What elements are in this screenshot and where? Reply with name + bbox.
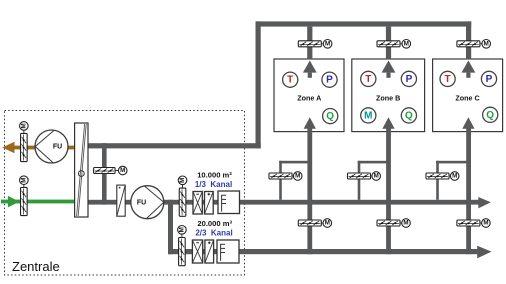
svg-text:Zentrale: Zentrale [12, 259, 60, 274]
motor M of zone C exhaust damper [480, 40, 491, 49]
svg-text:1/3 Kanal: 1/3 Kanal [195, 180, 232, 189]
svg-text:FU: FU [53, 144, 62, 151]
zone B pressure sensor P [401, 71, 416, 86]
svg-text:2/3 Kanal: 2/3 Kanal [195, 229, 232, 238]
zone A pressure sensor P [322, 72, 337, 87]
label Zone C [455, 93, 479, 102]
zone A room box [274, 59, 344, 132]
zone C temperature sensor T [440, 71, 455, 86]
wire zone C exhaust stub [466, 21, 471, 59]
damper B1 on duct 1 (vertical) [179, 188, 186, 216]
svg-text:Zone A: Zone A [297, 93, 321, 102]
svg-text:M: M [178, 227, 185, 232]
svg-text:Q: Q [405, 110, 413, 121]
register E2 [217, 240, 239, 263]
zone B supply arrow [382, 117, 394, 129]
motor M of zone A exhaust damper [321, 40, 332, 49]
label 1/3 Kanal [195, 180, 232, 189]
motor M of zone B exhaust damper [400, 40, 411, 49]
svg-text:M: M [179, 178, 186, 183]
wire supply duct after heat exchanger [88, 200, 240, 205]
heat exchanger (rotary) [75, 123, 88, 217]
zone B temperature sensor T [361, 71, 376, 86]
label 10.000 m3 [197, 171, 232, 180]
wire zone C supply vertical [466, 124, 471, 254]
wire zone B supply vertical [386, 124, 391, 254]
exhaust air duct brown [12, 146, 75, 150]
fresh air duct green [1, 200, 75, 204]
damper D1 exhaust (vertical) [21, 133, 28, 161]
svg-text:P: P [486, 74, 493, 85]
heater H2 [205, 240, 214, 263]
motor M of zone B 2/3 branch damper [400, 219, 410, 228]
svg-text:P: P [406, 74, 413, 85]
zone A supply arrow [304, 117, 316, 129]
zone B air quality sensor Q [401, 108, 416, 123]
zone A temperature sensor T [283, 72, 298, 87]
svg-text:Q: Q [486, 110, 494, 121]
zone C pressure sensor P [481, 71, 496, 86]
cooler X1 [193, 192, 202, 215]
label Zone B [376, 93, 400, 102]
zone C supply arrow [462, 117, 474, 129]
motor M of zone C 2/3 branch damper [480, 219, 490, 228]
zone A air quality sensor Q [323, 109, 338, 124]
cooler X2 [192, 240, 202, 263]
label Zentrale [12, 259, 60, 274]
Zentrale dashed enclosure [5, 111, 245, 276]
svg-text:20.000 m³: 20.000 m³ [197, 219, 232, 228]
wire duct 2 (20.000 m3) with arrow [168, 246, 492, 259]
svg-text:M: M [364, 110, 372, 121]
zone C exhaust damper [457, 41, 480, 47]
svg-text:M: M [295, 173, 300, 180]
zone C room box [433, 59, 503, 132]
fan FU2 supply fan [131, 186, 164, 219]
svg-text:M: M [483, 220, 488, 227]
register E1 [218, 191, 240, 214]
wire zone A supply vertical [307, 124, 312, 254]
zone A damper on 1/3 branch [269, 173, 292, 179]
motor M of damper D2 [20, 176, 29, 188]
fresh air arrow green [8, 196, 20, 208]
svg-text:M: M [20, 123, 27, 128]
zone B damper on 1/3 branch [348, 173, 371, 179]
wire branch drop to 20.000 duct [168, 200, 173, 254]
wire duct 1 (10.000 m3) with arrow [239, 197, 491, 208]
exhaust air arrow brown [2, 142, 14, 153]
filter FL1 [117, 185, 125, 216]
svg-text:M: M [20, 178, 27, 183]
svg-text:M: M [325, 220, 330, 227]
svg-text:M: M [325, 41, 330, 48]
svg-text:M: M [403, 220, 408, 227]
svg-text:T: T [445, 74, 451, 85]
svg-text:T: T [287, 75, 293, 86]
wire return duct top horizontal [256, 21, 472, 26]
heater H1 [205, 192, 214, 215]
wire zone C branch connector [436, 161, 469, 164]
wire return riser vertical [256, 21, 261, 148]
wire zone B exhaust stub [386, 27, 391, 60]
motor M of damper D1 [20, 122, 29, 134]
wire zone A branch from duct1 [279, 161, 282, 200]
svg-text:Zone C: Zone C [455, 93, 479, 102]
svg-text:Zone B: Zone B [376, 93, 400, 102]
label 20.000 m3 [197, 219, 232, 228]
svg-text:P: P [326, 75, 333, 86]
wire zone C branch from duct1 [436, 161, 439, 200]
svg-text:M: M [484, 41, 489, 48]
motor M of zone C 1/3 branch damper [449, 172, 459, 181]
wire zone B branch connector [358, 161, 389, 164]
svg-text:10.000 m³: 10.000 m³ [197, 171, 232, 180]
wire recirculation drop [102, 143, 107, 204]
damper B2 on duct 2 (vertical) [179, 238, 186, 266]
svg-text:M: M [374, 173, 379, 180]
zone B exhaust damper [377, 41, 400, 47]
fan FU1 exhaust fan [35, 130, 68, 163]
label Zone A [297, 93, 321, 102]
zone C exhaust arrow [462, 61, 476, 78]
zone B motion sensor M [361, 108, 376, 123]
svg-text:Q: Q [326, 111, 334, 122]
svg-text:FU: FU [137, 200, 146, 207]
zone B room box [352, 59, 425, 132]
svg-text:M: M [404, 41, 409, 48]
zone A exhaust damper [298, 41, 321, 47]
svg-text:M: M [120, 167, 125, 174]
zone A damper on 2/3 branch [298, 220, 321, 226]
motor M of damper B2 [178, 226, 187, 238]
wire zone B branch from duct1 [358, 161, 361, 200]
motor M of zone A 1/3 branch damper [292, 172, 302, 181]
wire zone A exhaust stub [307, 27, 312, 60]
damper D2 intake (vertical) [21, 187, 28, 215]
damper D3 recirculation (horizontal) [94, 168, 116, 174]
motor M of zone B 1/3 branch damper [371, 172, 381, 181]
motor M of zone A 2/3 branch damper [321, 219, 331, 228]
label 2/3 Kanal [195, 229, 232, 238]
zone C damper on 1/3 branch [426, 173, 449, 179]
wire return duct into Zentrale [88, 143, 261, 148]
svg-text:M: M [452, 173, 457, 180]
wire zone A branch connector [279, 161, 310, 164]
motor M of damper B1 [178, 176, 187, 188]
zone C air quality sensor Q [483, 107, 498, 122]
zone B exhaust arrow [382, 61, 396, 78]
zone B damper on 2/3 branch [377, 220, 400, 226]
svg-text:T: T [365, 74, 371, 85]
zone C damper on 2/3 branch [457, 220, 480, 226]
zone A exhaust arrow [303, 61, 317, 78]
motor M of damper D3 [115, 166, 127, 175]
